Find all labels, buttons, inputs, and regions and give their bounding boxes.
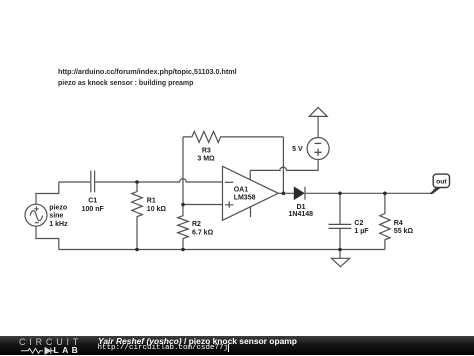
wire: diode to out flag <box>306 192 431 194</box>
wire: feedback vertical left <box>182 137 184 205</box>
wire: supply wire with hop over feedback <box>250 160 318 171</box>
junction: op-amp output / feedback node <box>282 192 286 196</box>
voltage source V2 5V <box>307 138 329 160</box>
svg-text:55 kΩ: 55 kΩ <box>394 228 414 235</box>
svg-text:LM358: LM358 <box>234 195 256 202</box>
label D1 1N4148 <box>289 204 314 218</box>
footer credit line <box>98 336 297 346</box>
power flag arrow <box>309 107 327 137</box>
capacitor C1 <box>91 171 95 193</box>
resistor R1 <box>132 182 143 250</box>
label 5 V <box>292 146 303 153</box>
junction: R1 bottom / ground rail <box>135 248 139 252</box>
label C1 100 nF <box>82 197 105 213</box>
svg-text:1 kHz: 1 kHz <box>49 221 68 228</box>
svg-text:R1: R1 <box>147 197 156 204</box>
header subtitle text <box>58 80 193 87</box>
junction: C2 bottom / ground rail <box>338 248 342 252</box>
voltage source V1 piezo <box>25 204 47 226</box>
label out <box>436 178 447 185</box>
wire: feedback vertical right <box>282 137 284 193</box>
svg-text:R3: R3 <box>202 147 211 154</box>
resistor R4 <box>380 193 390 249</box>
label OA1 LM358 <box>234 187 256 202</box>
junction: R4 top / out node <box>383 192 387 196</box>
svg-text:10 kΩ: 10 kΩ <box>147 206 167 213</box>
label R1 10 kOhm <box>147 197 167 213</box>
junction: R2 bottom / ground rail <box>181 248 185 252</box>
circuitlab logo LAB <box>54 345 82 355</box>
footer url line <box>98 344 230 352</box>
svg-text:OA1: OA1 <box>234 187 249 194</box>
circuitlab logo text <box>19 337 82 347</box>
net flag out <box>429 174 449 194</box>
svg-text:D1: D1 <box>297 204 306 211</box>
wire: top signal wire left of C1 <box>59 181 90 183</box>
svg-text:R4: R4 <box>394 220 403 227</box>
svg-text:1N4148: 1N4148 <box>289 211 314 218</box>
wire: source top step <box>36 182 59 205</box>
label R4 55 kOhm <box>394 220 414 235</box>
op-amp OA1 <box>223 166 279 220</box>
wire: non-inverting input wire <box>183 204 223 206</box>
svg-text:piezo: piezo <box>49 204 67 211</box>
svg-text:100 nF: 100 nF <box>82 206 105 213</box>
label R3 3 MOhm <box>197 147 215 162</box>
ground <box>331 250 349 267</box>
svg-text:C1: C1 <box>88 197 97 204</box>
svg-text:6.7 kΩ: 6.7 kΩ <box>192 229 214 236</box>
circuitlab logo zigzag and diode <box>21 346 81 356</box>
svg-text:3 MΩ: 3 MΩ <box>197 155 215 162</box>
wire: source bottom step <box>36 226 59 250</box>
wire: output wire <box>278 192 294 194</box>
junction: R2 top / non-inverting input node <box>181 203 185 207</box>
svg-text:5 V: 5 V <box>292 146 303 153</box>
junction: R1 top / inverting input node <box>135 180 139 184</box>
footer bar <box>0 336 474 355</box>
label R2 6.7 kOhm <box>192 221 214 236</box>
svg-text:R2: R2 <box>192 221 201 228</box>
resistor R2 <box>178 205 189 250</box>
diode D1 <box>294 187 305 200</box>
capacitor C2 <box>329 193 352 249</box>
svg-text:sine: sine <box>49 213 63 220</box>
junction: C2 top / out node <box>338 192 342 196</box>
wire: bottom rail <box>59 249 385 251</box>
svg-text:out: out <box>436 178 447 185</box>
header link text <box>58 67 237 76</box>
wire: top signal wire C1 to op-amp with hop over feedback <box>95 179 222 182</box>
label C2 1 uF <box>354 220 369 235</box>
svg-text:C2: C2 <box>354 220 363 227</box>
label piezo sine 1 kHz <box>49 204 68 228</box>
resistor R3 <box>183 131 283 142</box>
svg-text:1 µF: 1 µF <box>354 228 369 235</box>
